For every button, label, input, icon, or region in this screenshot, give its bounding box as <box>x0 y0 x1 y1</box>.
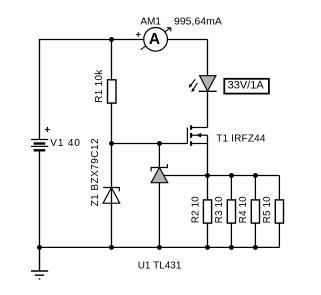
wire R1 branch top <box>111 40 113 80</box>
wire top rail left <box>40 39 144 41</box>
resistor R2 <box>203 200 211 223</box>
wire left vertical lower <box>39 150 41 247</box>
wire top rail right <box>167 39 207 41</box>
node H junction <box>109 245 114 250</box>
ammeter AM1 <box>141 27 171 51</box>
wire left vertical upper <box>39 39 41 140</box>
node D junction <box>205 173 210 178</box>
channel stub top <box>190 125 192 129</box>
channel stub middle <box>190 133 192 138</box>
svg-text:AM1: AM1 <box>140 16 161 27</box>
svg-text:R3 10: R3 10 <box>214 196 225 223</box>
gate plate <box>186 128 188 144</box>
wire source rail <box>163 175 279 177</box>
node I junction <box>157 245 162 250</box>
resistor R3 <box>227 200 235 223</box>
resistor R1 <box>108 80 117 103</box>
wire R4 vertical <box>254 176 256 248</box>
wire R1 to node B <box>111 103 113 143</box>
mosfet body arrow <box>196 133 201 138</box>
node G junction <box>37 245 42 250</box>
LED arrow 1 <box>189 79 196 88</box>
node A junction <box>109 37 114 42</box>
wire R2 vertical <box>207 176 209 248</box>
svg-text:U1 TL431: U1 TL431 <box>138 261 182 272</box>
ammeter plus sign <box>136 32 141 37</box>
source vertical <box>207 135 209 175</box>
node F junction <box>253 173 258 178</box>
LED arrow 2 <box>191 83 197 92</box>
wire R5 vertical <box>278 176 280 248</box>
svg-text:T1 IRFZ44: T1 IRFZ44 <box>216 134 266 145</box>
svg-text:R2 10: R2 10 <box>190 196 201 223</box>
wire U1 branch vertical <box>158 144 160 248</box>
wire bottom rail <box>40 246 280 248</box>
svg-text:R5 10: R5 10 <box>262 196 273 223</box>
resistor R4 <box>251 200 259 223</box>
svg-text:A: A <box>149 31 160 48</box>
node L junction <box>253 245 258 250</box>
channel stub bottom <box>190 141 192 146</box>
svg-text:V1 40: V1 40 <box>50 138 80 149</box>
battery plus sign <box>45 127 50 132</box>
wire Z1 branch vertical <box>111 144 113 248</box>
source lead <box>192 143 208 145</box>
svg-text:Z1 BZX79C12: Z1 BZX79C12 <box>90 138 101 206</box>
node J junction <box>205 245 210 250</box>
LED D1 <box>199 76 217 92</box>
drain lead <box>192 127 208 129</box>
battery V1 <box>31 140 48 151</box>
ground <box>31 247 48 279</box>
zener Z1 <box>103 188 120 204</box>
wire R3 vertical <box>230 176 232 248</box>
transistor T1 (N-MOSFET) <box>187 125 207 175</box>
svg-text:R1 10k: R1 10k <box>94 69 105 103</box>
node E junction <box>229 173 234 178</box>
node B junction <box>109 141 114 146</box>
op-amp U1 TL431 shunt regulator <box>151 164 168 183</box>
label box 33V/1A <box>224 79 269 94</box>
node C junction <box>157 141 162 146</box>
svg-text:R4 10: R4 10 <box>238 196 249 223</box>
node K junction <box>229 245 234 250</box>
wire gate net <box>112 143 188 145</box>
resistor R5 <box>275 200 283 223</box>
wire drain vertical <box>207 40 209 128</box>
body lead with arrow <box>192 134 208 136</box>
svg-text:995,64mA: 995,64mA <box>174 15 222 27</box>
svg-text:33V/1A: 33V/1A <box>228 80 265 92</box>
